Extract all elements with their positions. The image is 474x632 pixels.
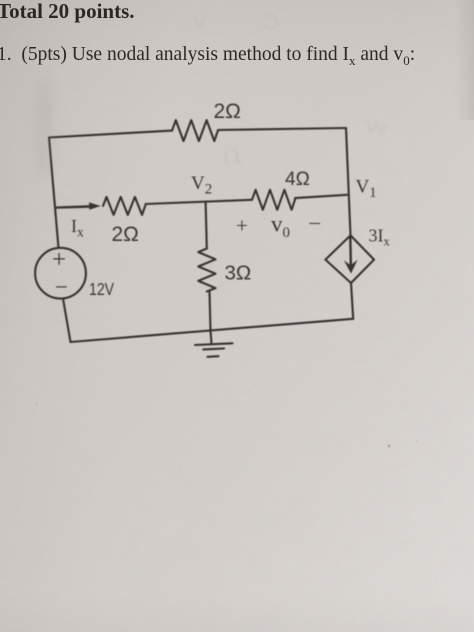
ground bar 3 [208,355,219,358]
wire top-left to top resistor [49,131,172,138]
arrowhead Ix current arrow [89,202,101,209]
paper grain [0,0,1,1]
title: Total 20 points. [0,0,135,24]
wire diamond to bottom-right corner [351,283,353,319]
arrow shaft inside diamond [349,238,352,268]
wire top resistor to top-right corner [218,128,346,130]
dark speck [388,445,390,447]
wire middle center segment V2 to 4ohm [146,200,253,204]
ground bar 2 [203,347,224,350]
right edge shadow [454,0,474,120]
arrowhead inside diamond [344,260,358,274]
wire middle left segment (node to arrow) [56,206,94,208]
soft shade streak left margin [35,76,53,180]
wire V2 vertical down to 3ohm [206,202,207,249]
wire 3ohm to bottom wire [210,292,211,331]
faint bleed-through mark [224,150,241,163]
wire left vertical (top corner to source) [49,138,59,249]
faint bleed marks top strip [192,14,277,28]
wire bottom [71,319,354,342]
resistor R 3ohm vertical zigzag [198,249,215,292]
wire source to bottom-left corner [63,299,71,343]
resistor R-top 2ohm zigzag [172,120,218,141]
resistor R-mid 2ohm zigzag [103,197,145,215]
faint bleed mark right upper [366,120,387,133]
wire middle right segment to V1 [295,195,347,198]
resistor R 4ohm zigzag [252,190,295,210]
wire right vertical top (corner to diamond) [346,128,351,236]
dependent source diamond 3Ix [325,235,374,283]
ground stub [211,331,212,344]
problem line 1. (5pts) ... [0,44,415,69]
ground bar 1 [195,343,233,345]
voltage source V 12V circle [35,248,86,299]
arrow shaft Ix [56,205,92,209]
